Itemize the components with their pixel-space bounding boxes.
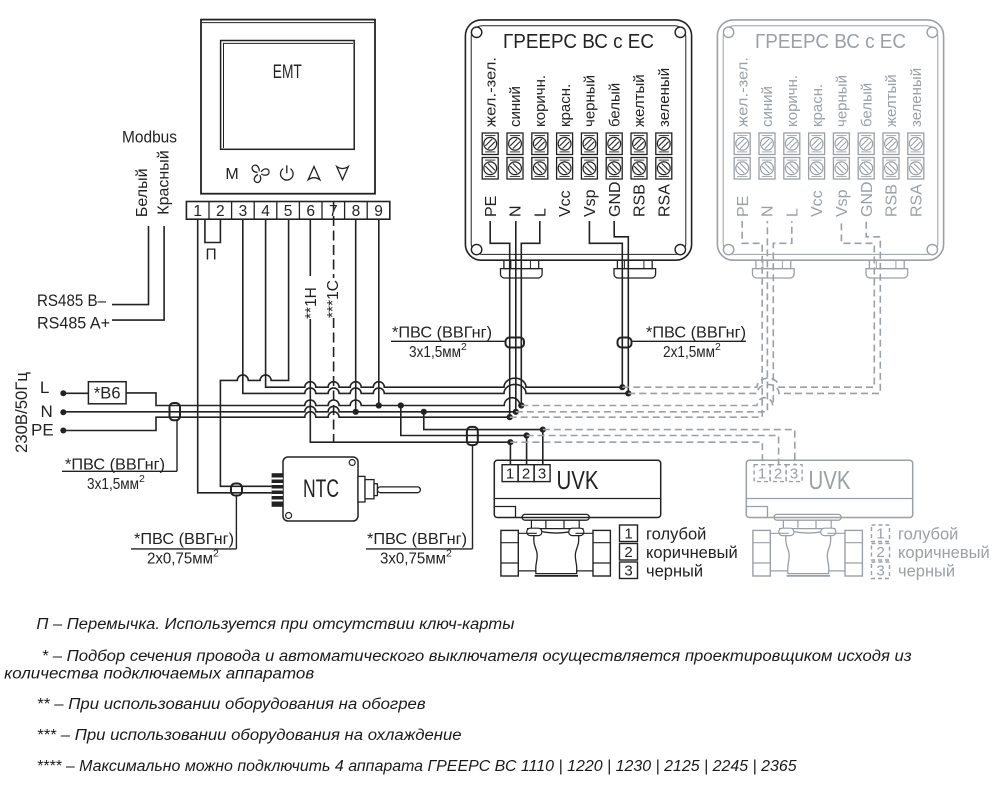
- svg-text:желтый: желтый: [883, 74, 900, 127]
- svg-text:черный: черный: [646, 563, 703, 581]
- node PE input: [60, 428, 66, 434]
- svg-text:3х0,75мм2: 3х0,75мм2: [380, 548, 452, 568]
- footnotes: [4, 616, 911, 775]
- svg-text:2: 2: [774, 465, 782, 482]
- wire UVK terminal 2 drop: [526, 436, 528, 465]
- wire Vsp stub: [589, 221, 622, 387]
- svg-text:RSB: RSB: [884, 184, 901, 217]
- ghost zone valve body: [753, 514, 863, 576]
- wire UVK terminal 1 drop: [509, 442, 511, 465]
- svg-text:**1Н: **1Н: [303, 287, 320, 319]
- svg-text:UVK: UVK: [557, 465, 600, 495]
- wire L tap to UVK 2: [401, 406, 527, 436]
- svg-text:3х1,5мм2: 3х1,5мм2: [409, 341, 467, 361]
- svg-text:3: 3: [624, 562, 632, 579]
- cable label PVS 3x1.5 mid: [391, 325, 506, 362]
- wire terminal 3 to GND: [243, 219, 629, 393]
- svg-text:Vcc: Vcc: [557, 190, 574, 217]
- svg-text:голубой: голубой: [646, 526, 706, 544]
- cable marker F2 (NTC 2x0.75): [231, 484, 242, 496]
- svg-text:3: 3: [790, 465, 798, 482]
- svg-text:2х1,5мм2: 2х1,5мм2: [663, 341, 721, 361]
- svg-text:N: N: [760, 205, 777, 217]
- svg-text:PE: PE: [31, 420, 54, 439]
- svg-text:*В6: *В6: [94, 385, 121, 403]
- svg-text:*ПВС (ВВГнг): *ПВС (ВВГнг): [392, 325, 492, 342]
- thermostat display window: [221, 41, 355, 150]
- terminal strip 1-9: [186, 202, 389, 220]
- svg-text:Modbus: Modbus: [122, 129, 177, 147]
- wire L stub: [521, 221, 540, 406]
- wire N tap to UVK 3: [424, 412, 543, 430]
- svg-text:Красный: Красный: [156, 150, 173, 214]
- svg-text:синий: синий: [507, 86, 524, 127]
- cable label PVS 3x0.75: [366, 445, 473, 567]
- ghost UVK terminals 1 2 3: [754, 465, 802, 483]
- thermostat top bevel line: [202, 22, 374, 24]
- svg-text:зеленый: зеленый: [908, 68, 925, 127]
- svg-text:RS485 A+: RS485 A+: [37, 315, 110, 333]
- svg-text:***1С: ***1С: [325, 280, 342, 318]
- thermostat EMT outer body: [201, 20, 375, 194]
- svg-text:Vsp: Vsp: [834, 189, 851, 217]
- svg-text:RSA: RSA: [908, 184, 925, 217]
- NTC sensor box: [283, 457, 358, 521]
- svg-text:черный: черный: [898, 563, 955, 581]
- svg-text:**** – Максимально можно подкл: **** – Максимально можно подключить 4 ап…: [37, 758, 797, 775]
- wire GND stub: [614, 221, 628, 393]
- svg-text:*ПВС (ВВГнг): *ПВС (ВВГнг): [134, 531, 234, 548]
- terminal dividers: [209, 202, 367, 220]
- svg-text:9: 9: [374, 203, 383, 220]
- svg-text:количества подключаемых аппара: количества подключаемых аппаратов: [4, 666, 314, 683]
- svg-text:L: L: [532, 208, 549, 217]
- svg-text:N: N: [40, 402, 52, 421]
- NTC screw bottom-left: [286, 513, 292, 519]
- svg-text:RSA: RSA: [656, 184, 673, 217]
- svg-text:красн.: красн.: [557, 84, 574, 127]
- cable label PVS 2x0.75 NTC: [131, 496, 236, 568]
- svg-text:L: L: [784, 208, 801, 217]
- cable marker F3 (3x1.5 mid): [506, 338, 525, 348]
- legend wire colors text: [624, 525, 737, 580]
- svg-text:1: 1: [876, 525, 884, 542]
- svg-text:зеленый: зеленый: [656, 68, 673, 127]
- cable marker F1 (3x1.5 left): [170, 403, 181, 420]
- svg-text:красн.: красн.: [809, 84, 826, 127]
- svg-text:коричневый: коричневый: [898, 544, 990, 562]
- svg-text:3: 3: [239, 203, 248, 220]
- svg-text:*** – При использовании оборуд: *** – При использовании оборудования на …: [37, 727, 462, 744]
- svg-text:UVK: UVK: [809, 465, 852, 495]
- NTC screw top-right: [349, 460, 355, 466]
- wire terminal 7 cooling (dashed): [333, 202, 335, 443]
- svg-text:RSB: RSB: [632, 184, 649, 217]
- UVK terminals 1 2 3: [502, 465, 550, 483]
- cable label PVS 2x1.5: [632, 325, 747, 362]
- svg-text:Белый: Белый: [134, 168, 151, 217]
- svg-text:1: 1: [758, 465, 766, 482]
- svg-text:1: 1: [193, 203, 202, 220]
- ghost legend text: [876, 525, 989, 580]
- svg-text:черный: черный: [834, 75, 851, 127]
- button fan icon: [251, 164, 269, 183]
- svg-text:230В/50Гц: 230В/50Гц: [12, 372, 31, 453]
- wire terminal 4 to Vsp: [266, 219, 623, 387]
- zone valve body: [501, 514, 611, 576]
- wire N stub: [515, 221, 517, 412]
- svg-text:черный: черный: [582, 75, 599, 127]
- svg-text:GND: GND: [607, 181, 624, 217]
- svg-text:3х1,5мм2: 3х1,5мм2: [87, 473, 145, 493]
- svg-text:3: 3: [538, 465, 546, 482]
- svg-text:П: П: [206, 246, 217, 263]
- cable label PVS 3x1.5 left: [62, 421, 177, 494]
- svg-text:N: N: [508, 205, 525, 217]
- svg-text:белый: белый: [606, 83, 623, 127]
- ghost fan coil unit (dashed wires): [510, 221, 881, 465]
- wire terminal 8 to N: [355, 219, 357, 412]
- svg-text:NTC: NTC: [303, 475, 339, 503]
- svg-text:L: L: [40, 378, 49, 397]
- ghost legend boxes: [872, 525, 890, 579]
- terminal numbers: [193, 203, 382, 220]
- wire N bus: [63, 406, 516, 412]
- wire terminal 9 to L: [378, 219, 380, 405]
- svg-text:RS485 B–: RS485 B–: [37, 292, 107, 310]
- svg-text:2: 2: [624, 544, 632, 561]
- svg-text:6: 6: [306, 203, 315, 220]
- valve actuator UVK: [494, 460, 660, 517]
- svg-text:Vcc: Vcc: [809, 190, 826, 217]
- legend wire color boxes: [620, 525, 638, 579]
- svg-text:*ПВС (ВВГнг): *ПВС (ВВГнг): [367, 531, 467, 548]
- wire L bus: [126, 393, 521, 406]
- circuit breaker B6: [88, 382, 126, 404]
- svg-text:ГРЕЕРС ВС с ЕС: ГРЕЕРС ВС с ЕС: [503, 31, 654, 53]
- ghost fan coil box: [717, 20, 943, 278]
- wire PE stub: [490, 221, 510, 417]
- NTC cable gland: [272, 473, 283, 507]
- ghost UVK actuator: [746, 460, 912, 517]
- svg-text:коричневый: коричневый: [646, 544, 738, 562]
- svg-text:1: 1: [506, 465, 514, 482]
- svg-text:коричн.: коричн.: [784, 75, 801, 127]
- svg-text:2: 2: [522, 465, 530, 482]
- wire L input to breaker: [63, 392, 88, 394]
- fan coil unit GREERS VS with EC: [465, 20, 691, 278]
- svg-text:2: 2: [216, 203, 225, 220]
- svg-text:4: 4: [261, 203, 270, 220]
- svg-text:5: 5: [284, 203, 293, 220]
- svg-text:2: 2: [876, 544, 884, 561]
- wire modbus white: [112, 226, 149, 305]
- wire terminal 5 to NTC: [220, 219, 288, 486]
- svg-text:П – Перемычка. Используется пр: П – Перемычка. Используется при отсутств…: [36, 616, 515, 633]
- svg-text:жел.-зел.: жел.-зел.: [734, 57, 751, 127]
- button power icon: [281, 165, 294, 180]
- svg-text:EMT: EMT: [273, 61, 302, 83]
- svg-text:синий: синий: [759, 86, 776, 127]
- button up arrow: [308, 167, 320, 180]
- NTC probe fitting: [358, 476, 420, 502]
- svg-text:PE: PE: [735, 196, 752, 217]
- svg-text:3: 3: [876, 562, 884, 579]
- svg-text:ГРЕЕРС ВС с ЕС: ГРЕЕРС ВС с ЕС: [755, 31, 906, 53]
- cable marker F5 (3x0.75): [467, 427, 478, 445]
- svg-text:8: 8: [352, 203, 361, 220]
- svg-text:1: 1: [624, 525, 632, 542]
- cable marker F4 (2x1.5): [618, 338, 632, 348]
- jumper bracket terminals 1-2: [205, 219, 221, 242]
- wire UVK terminal 3 drop: [542, 430, 544, 465]
- node L input: [60, 390, 66, 396]
- svg-text:GND: GND: [859, 181, 876, 217]
- svg-text:* – Подбор сечения провода и а: * – Подбор сечения провода и автоматичес…: [42, 648, 912, 665]
- svg-text:голубой: голубой: [898, 526, 958, 544]
- svg-text:белый: белый: [858, 83, 875, 127]
- svg-text:жел.-зел.: жел.-зел.: [482, 57, 499, 127]
- node N input: [60, 409, 66, 415]
- button down arrow: [337, 167, 349, 180]
- wire terminal 1 to NTC: [198, 219, 272, 493]
- wire PE bus: [63, 412, 509, 431]
- svg-text:*ПВС (ВВГнг): *ПВС (ВВГнг): [646, 325, 746, 342]
- svg-text:Vsp: Vsp: [582, 189, 599, 217]
- wire modbus red: [112, 226, 164, 320]
- display bevel lines: [224, 43, 354, 148]
- wire terminal 6 heating: [310, 219, 510, 442]
- svg-text:коричн.: коричн.: [532, 75, 549, 127]
- junction dots: [353, 384, 632, 445]
- svg-text:** – При использовании оборудо: ** – При использовании оборудования на о…: [37, 696, 426, 713]
- svg-text:M: M: [225, 166, 238, 183]
- svg-text:PE: PE: [483, 196, 500, 217]
- svg-text:2х0,75мм2: 2х0,75мм2: [147, 548, 219, 568]
- svg-text:желтый: желтый: [631, 74, 648, 127]
